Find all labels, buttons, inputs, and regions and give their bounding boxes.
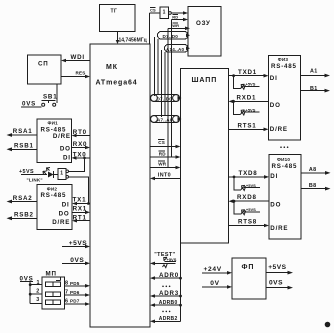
svg-text:ФИ2: ФИ2 [47, 186, 58, 191]
RS-485 transceiver FI10 (ФИ10) [269, 155, 301, 240]
wire RT1 MK to FI2 D/RE [72, 214, 90, 222]
RS-485 transceiver FI3 (ФИ3) [269, 56, 301, 141]
bus A7..A0 lower MK to ShAPP [151, 116, 182, 123]
svg-text:+5VS: +5VS [246, 107, 256, 112]
wire ADRB0 to MK [150, 300, 182, 307]
LED HL1 "LINK" [43, 168, 58, 179]
svg-text:DO: DO [59, 210, 70, 217]
resistor pull-up on TXD8 to +5VS [234, 177, 260, 191]
inverter gate U1 "1" [160, 7, 171, 19]
node CS row MK to ShAPP [150, 140, 181, 149]
svg-text:RTS8: RTS8 [238, 219, 257, 226]
net 0VS output of FP [266, 280, 293, 290]
ellipsis dots between FI3 and FI10 [280, 146, 288, 148]
svg-text:ФП: ФП [242, 264, 255, 271]
resistor pull-up on RXD8 to +5VS [234, 201, 260, 215]
svg-text:RTS1: RTS1 [238, 122, 257, 129]
wire PD6 MP pin 7 to MK [65, 289, 91, 296]
svg-text:1: 1 [163, 10, 166, 16]
wire data bus vertical pair [155, 37, 159, 96]
resistor pull-up on RXD1 to +5VS [234, 101, 260, 115]
svg-text:PD7: PD7 [70, 299, 80, 304]
wire A1 output arrow [301, 68, 331, 77]
wire TXD8 ShAPP to FI10 DI [229, 170, 270, 179]
svg-text:ОЗУ: ОЗУ [196, 20, 211, 27]
svg-text:PD6: PD6 [70, 290, 80, 295]
wire PD5 MP pin 8 to MK [65, 280, 91, 287]
ellipsis dots [162, 286, 170, 288]
power supply FP (ФП) [232, 258, 266, 299]
supervisor SP (СП) [28, 55, 62, 84]
wire ADR0 to MK [150, 272, 182, 280]
svg-text:A1: A1 [310, 68, 318, 74]
node CS (active low) [150, 7, 161, 44]
ellipsis dots [162, 311, 170, 313]
wire ADR3 to MK [150, 290, 182, 298]
svg-text:+5VS: +5VS [246, 82, 256, 87]
svg-text:+5VS: +5VS [69, 240, 87, 247]
wire B1 output arrow [301, 86, 331, 93]
svg-text:RD: RD [159, 151, 167, 156]
DIP switch MP (МП) [36, 271, 64, 310]
wire TX1 MK to FI2 DI [72, 196, 90, 205]
svg-text:CS: CS [158, 140, 165, 145]
svg-text:SB1: SB1 [43, 94, 57, 101]
svg-text:DO: DO [270, 201, 281, 208]
wire gate U2 input tap from TX1 [69, 177, 90, 205]
svg-text:PD5: PD5 [70, 281, 80, 286]
svg-text:RXD1: RXD1 [237, 95, 257, 102]
net TEST with pull-up resistor to +5VS [150, 252, 177, 268]
svg-text:RES: RES [76, 71, 86, 76]
wire RTS8 ShAPP to FI10 D/RE [229, 219, 270, 228]
wire RD vertical run [171, 20, 173, 158]
svg-text:0V: 0V [210, 280, 219, 287]
bus A14..A0 upper into OZU [165, 45, 191, 53]
svg-text:D/RE: D/RE [52, 219, 70, 226]
net +24V into FP [202, 266, 232, 275]
svg-text:A8: A8 [309, 167, 317, 173]
wire RSA1 output arrow [7, 128, 38, 137]
wire ADR bus vertical from ShAPP bottom [180, 243, 182, 321]
RAM OZU (ОЗУ) [188, 7, 221, 57]
svg-text:DI: DI [270, 173, 278, 180]
wire RES SP to MK with arrow [61, 71, 90, 79]
clock generator TG (ТГ) [100, 5, 136, 32]
svg-text:INT0: INT0 [158, 173, 171, 179]
wire RSB2 output arrow [7, 212, 38, 221]
RS-485 transceiver FI1 (ФИ1) [37, 119, 72, 163]
wire RXD8 FI10 DO to ShAPP [229, 194, 270, 203]
svg-text:+5VS: +5VS [246, 207, 256, 212]
svg-text:1: 1 [60, 171, 63, 177]
wire RXD1 FI3 DO to ShAPP [229, 95, 269, 104]
svg-text:0VS: 0VS [269, 280, 283, 287]
svg-text:RXD8: RXD8 [237, 194, 257, 201]
wire gate U2 input tap from TX0 [69, 157, 86, 172]
node 0VS at SB1 [21, 101, 42, 108]
net +5VS output of FP [266, 264, 293, 274]
node 0VS to MP pins 1-3 [20, 276, 43, 304]
wire RTS1 ShAPP to FI3 D/RE [229, 122, 269, 131]
svg-text:DI: DI [63, 154, 71, 161]
svg-text:WR: WR [172, 23, 179, 28]
wire RX0 FI1 DO to MK [72, 141, 91, 149]
wire TX0 MK to FI1 DI [72, 151, 91, 159]
svg-text:МК: МК [106, 64, 118, 71]
svg-text:DO: DO [270, 102, 281, 109]
svg-text:WR: WR [158, 161, 167, 166]
wire RSA2 output arrow [7, 195, 38, 204]
node WR row MK to ShAPP [150, 161, 181, 169]
svg-text:МП: МП [46, 271, 57, 278]
bus D7..D0 upper into OZU [158, 32, 191, 40]
svg-text:D/RE: D/RE [270, 126, 288, 133]
wire WDI MK to SP with arrow [61, 54, 90, 62]
svg-text:ФИ3: ФИ3 [278, 57, 289, 62]
svg-text:DI: DI [62, 201, 70, 208]
svg-text:ШАПП: ШАПП [192, 77, 218, 84]
wire ADRB2 to MK [150, 316, 181, 323]
svg-text:A7..A0: A7..A0 [157, 118, 173, 123]
svg-text:+5VS: +5VS [167, 257, 177, 262]
svg-text:RSB2: RSB2 [14, 212, 34, 219]
wire B8 output arrow [301, 183, 331, 191]
node WR (active low) wire to OZU [168, 23, 190, 30]
svg-text:ФИ10: ФИ10 [277, 157, 290, 162]
svg-text:3: 3 [36, 297, 39, 303]
wire RSB1 output arrow [7, 143, 38, 152]
svg-text:RS-485: RS-485 [41, 192, 67, 199]
net +5VS for LINK LED [19, 169, 47, 175]
wire PD7 MP pin 6 to MK [65, 299, 91, 306]
pushbutton SB1 [42, 94, 58, 107]
gate U2 "1" LED driver [58, 169, 68, 180]
svg-text:СП: СП [38, 61, 49, 68]
svg-text:ФИ1: ФИ1 [48, 120, 59, 125]
svg-text:RX1: RX1 [73, 206, 87, 213]
svg-text:RSA2: RSA2 [13, 195, 33, 202]
svg-text:A14..A0: A14..A0 [166, 47, 184, 52]
svg-text:DO: DO [60, 145, 71, 152]
net 0V into FP [202, 280, 232, 289]
svg-text:D/RE: D/RE [53, 133, 71, 140]
svg-text:DI: DI [270, 75, 278, 82]
svg-text:D7..D0: D7..D0 [163, 34, 179, 39]
parallel port hub ShAPP (ШАПП) [181, 69, 229, 244]
svg-text:TX1: TX1 [73, 196, 87, 203]
microcontroller MK ATmega64 [90, 44, 150, 327]
svg-text:+5VS: +5VS [268, 264, 286, 271]
wire address bus vertical pair [162, 50, 166, 117]
svg-text:RD: RD [172, 14, 178, 19]
wire A8 output arrow [301, 167, 331, 175]
wire RX1 FI2 DO to MK [72, 206, 90, 215]
svg-text:RS-485: RS-485 [271, 63, 297, 70]
svg-text:"LINK": "LINK" [27, 177, 43, 182]
svg-text:+5VS: +5VS [246, 183, 256, 188]
net +5VS into MK [62, 240, 90, 248]
resistor pull-up on TXD1 to +5VS [234, 76, 260, 90]
svg-text:D7..D0: D7..D0 [157, 97, 173, 102]
svg-text:CS: CS [150, 8, 156, 13]
node RD row MK to ShAPP [150, 151, 181, 159]
wire SP bottom to button SB1 [56, 84, 58, 103]
wire clock TG to MK with arrow [116, 32, 120, 45]
svg-text:ТГ: ТГ [111, 9, 118, 15]
svg-text:RSB1: RSB1 [14, 143, 34, 150]
svg-text:D/RE: D/RE [270, 225, 288, 232]
svg-text:+24V: +24V [204, 266, 222, 273]
svg-text:RS-485: RS-485 [272, 163, 298, 170]
svg-text:RSA1: RSA1 [13, 128, 33, 135]
svg-text:TXD1: TXD1 [238, 69, 257, 76]
svg-text:WDI: WDI [71, 54, 85, 61]
svg-text:ATmega64: ATmega64 [96, 80, 138, 87]
net 0VS into MK [62, 257, 90, 265]
wire WR vertical run [167, 28, 169, 167]
RS-485 transceiver FI2 (ФИ2) [37, 185, 72, 230]
wire RT0 MK to FI1 D/RE [72, 129, 91, 137]
node INT0 row ShAPP to MK [150, 173, 181, 181]
node RD (active low) wire to OZU [172, 14, 189, 21]
wire TXD1 ShAPP to FI3 DI [229, 69, 269, 77]
wire gate output to OZU with arrow [171, 11, 188, 15]
page artifact dot bottom right [325, 322, 331, 328]
svg-text:14,7456МГц: 14,7456МГц [119, 38, 148, 44]
bus D7..D0 lower MK to ShAPP [151, 95, 182, 102]
svg-text:TXD8: TXD8 [239, 170, 258, 177]
